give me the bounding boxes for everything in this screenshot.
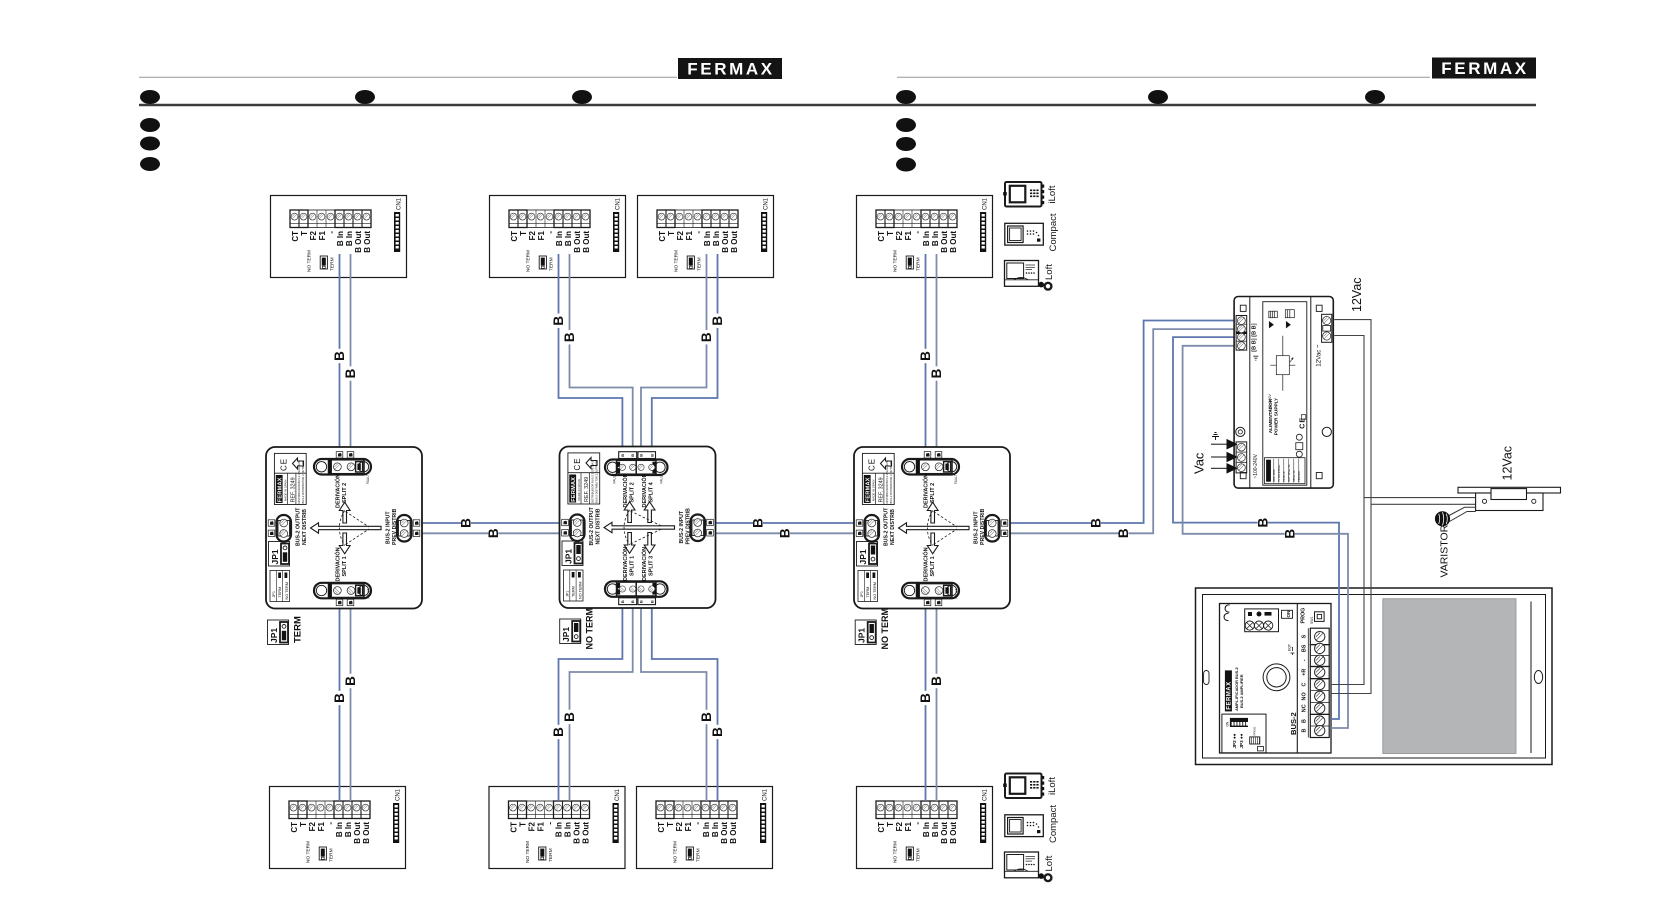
svg-text:FERMAX: FERMAX (687, 60, 774, 79)
svg-text:ON: ON (1286, 610, 1291, 618)
svg-text:12Vac: 12Vac (1315, 350, 1322, 367)
svg-text:FERMAX: FERMAX (1441, 59, 1528, 78)
svg-text:12Vac: 12Vac (1501, 446, 1515, 481)
svg-text:B: B (1302, 729, 1308, 733)
svg-text:Loft: Loft (1044, 264, 1055, 280)
svg-text:TERM: TERM (293, 616, 304, 643)
svg-text:IN 100-240Vac: IN 100-240Vac (1277, 464, 1281, 482)
svg-text:[B B] [B B]: [B B] [B B] (1251, 323, 1257, 351)
svg-text:OUT 12Vac 1A: OUT 12Vac 1A (1287, 464, 1291, 481)
svg-text:JP3 ●●: JP3 ●● (1239, 733, 1244, 748)
svg-text:NO TERM: NO TERM (585, 608, 595, 650)
svg-text:SW1: SW1 (1310, 617, 1314, 624)
svg-text:PROG: PROG (1253, 726, 1257, 736)
svg-text:Compact: Compact (1048, 213, 1059, 251)
svg-text:NC: NC (1302, 704, 1308, 712)
svg-text:B: B (1302, 719, 1308, 723)
svg-text:BS: BS (1302, 644, 1308, 652)
svg-text:18Vdc 1A: 18Vdc 1A (1292, 470, 1296, 482)
svg-text:NO TERM: NO TERM (880, 608, 890, 650)
svg-text:~100-240V: ~100-240V (1253, 453, 1259, 478)
svg-text:EQT: EQT (1288, 644, 1292, 651)
svg-text:CE: CE (1299, 417, 1306, 429)
svg-text:S: S (1302, 634, 1308, 638)
svg-text:FERMAX: FERMAX (1227, 681, 1233, 709)
svg-text:iLoft: iLoft (1047, 185, 1058, 203)
svg-text:12Vac: 12Vac (1350, 277, 1364, 312)
svg-text:Vac: Vac (1192, 452, 1207, 474)
svg-text:JP2 ●●: JP2 ●● (1232, 733, 1237, 748)
svg-text:ALIMENTADOR: ALIMENTADOR (1268, 398, 1273, 433)
svg-text:50-60 Hz: 50-60 Hz (1282, 470, 1286, 481)
svg-text:+R: +R (1302, 669, 1308, 676)
svg-text:REF. 4813: REF. 4813 (1272, 469, 1276, 482)
svg-text:ON: ON (1226, 721, 1230, 726)
svg-text:~: ~ (1314, 344, 1321, 348)
svg-text:POWER SUPPLY: POWER SUPPLY (1273, 397, 1278, 435)
svg-text:BUS-2 AMPLIFIER: BUS-2 AMPLIFIER (1239, 674, 1244, 708)
svg-text:NO: NO (1302, 692, 1308, 700)
svg-text:BUS-2: BUS-2 (1289, 712, 1298, 735)
svg-text:FERMAX: FERMAX (1297, 471, 1301, 482)
svg-text:-: - (1302, 659, 1308, 661)
svg-text:PROG: PROG (1301, 608, 1307, 624)
svg-text:VARISTOR: VARISTOR (1439, 524, 1451, 577)
svg-text:C: C (1302, 682, 1308, 686)
